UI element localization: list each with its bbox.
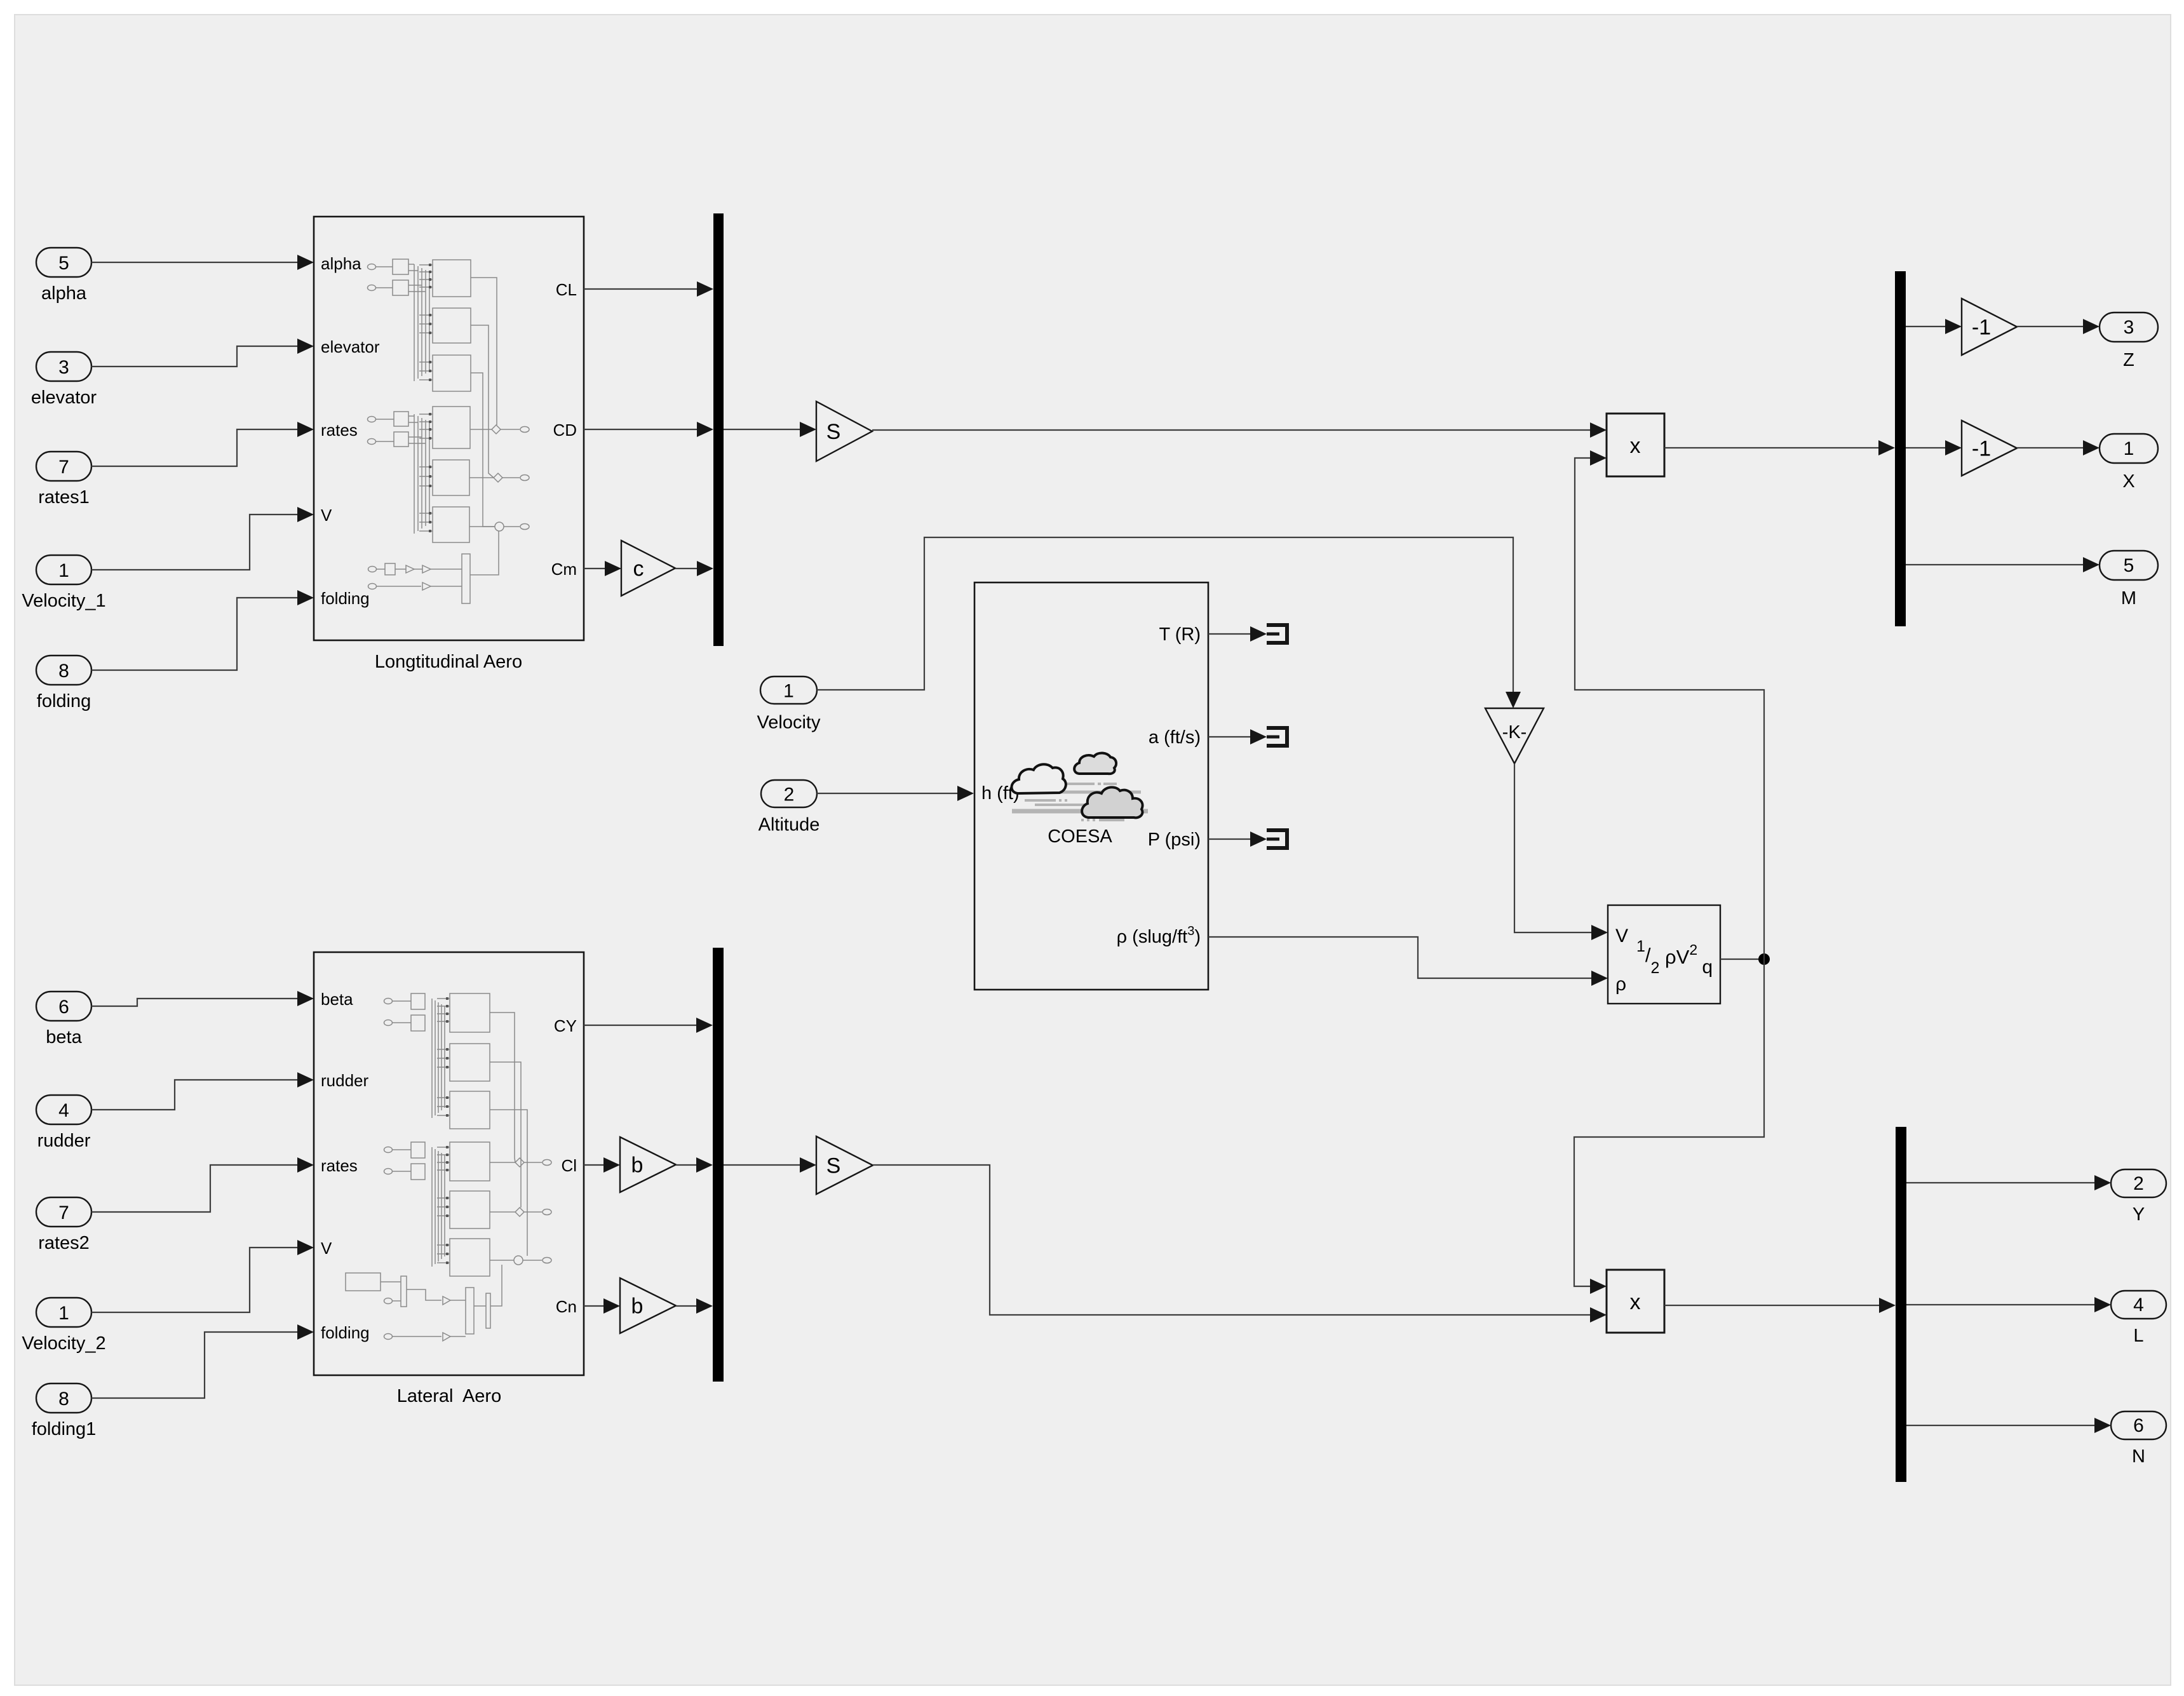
svg-text:S: S: [826, 420, 841, 444]
svg-text:elevator: elevator: [321, 337, 380, 356]
svg-text:S: S: [826, 1154, 841, 1178]
svg-text:b: b: [631, 1154, 644, 1178]
svg-text:x: x: [1630, 1290, 1641, 1314]
svg-text:elevator: elevator: [31, 387, 97, 408]
wire gain c to Mux: [675, 561, 713, 576]
svg-text:3: 3: [58, 357, 69, 378]
svg-text:V: V: [1615, 925, 1628, 946]
wire Demux to outport M: [1906, 557, 2100, 572]
svg-text:5: 5: [2124, 555, 2134, 576]
wire folding1 to Lateral Aero: [91, 1324, 314, 1398]
gain b (Cl): [620, 1137, 676, 1192]
svg-text:folding: folding: [321, 1323, 370, 1342]
svg-text:L: L: [2133, 1326, 2143, 1346]
wire Demux1 to outport Y: [1906, 1175, 2111, 1190]
gain c: [621, 541, 675, 596]
svg-text:X: X: [2122, 471, 2134, 492]
inport 3 (elevator): [31, 352, 97, 408]
svg-text:4: 4: [58, 1100, 69, 1121]
wire Velocity_2 to Lateral Aero: [91, 1240, 314, 1312]
svg-text:N: N: [2132, 1446, 2145, 1467]
wire Mux1 to gain S1: [724, 1157, 816, 1173]
wire Demux to gain -1 (Z): [1906, 319, 1962, 334]
dynamic pressure block 1/2 rho V^2: [1608, 905, 1720, 1004]
inport 5 (alpha): [36, 248, 91, 304]
svg-text:beta: beta: [46, 1027, 82, 1047]
svg-text:4: 4: [2133, 1295, 2144, 1316]
wire gain -K- to V input: [1514, 764, 1608, 940]
svg-text:3: 3: [2124, 317, 2134, 338]
svg-text:Velocity: Velocity: [757, 713, 821, 733]
Longtitudinal Aero icon preview: [368, 259, 530, 603]
svg-text:7: 7: [58, 457, 69, 478]
inport 8 (folding): [36, 656, 91, 711]
terminator P: [1267, 828, 1287, 850]
wire T (R) to terminator: [1208, 626, 1267, 642]
inport 2 (Altitude): [758, 780, 820, 835]
svg-text:Lateral Aero: Lateral Aero: [397, 1386, 501, 1406]
Lateral Aero icon preview: [346, 993, 551, 1341]
wire Cl to gain b: [584, 1157, 620, 1173]
gain -1 (Z): [1962, 299, 2017, 355]
svg-text:folding: folding: [321, 589, 370, 608]
svg-text:CY: CY: [554, 1016, 577, 1035]
wire Velocity to gain -K-: [817, 537, 1521, 708]
svg-text:rates1: rates1: [38, 487, 90, 508]
svg-text:Altitude: Altitude: [758, 815, 820, 835]
svg-text:Velocity_1: Velocity_1: [22, 591, 105, 611]
wire rates2 to Lateral Aero: [91, 1157, 314, 1212]
inport 7 (rates2): [36, 1197, 91, 1253]
svg-text:5: 5: [58, 253, 69, 274]
wire q output to junction: [1720, 959, 1764, 960]
outport 5 (M): [2100, 551, 2158, 609]
wire gain b1 to Mux1: [676, 1298, 713, 1314]
svg-text:-K-: -K-: [1502, 722, 1527, 743]
svg-text:-1: -1: [1972, 316, 1991, 340]
svg-text:b: b: [631, 1295, 644, 1319]
gain -1 (X): [1962, 421, 2017, 476]
wire gain S1 to Product1: [873, 1165, 1607, 1322]
svg-text:COESA: COESA: [1048, 826, 1112, 847]
gain S1 (span): [816, 1136, 873, 1194]
product block 1 (moment): [1607, 1270, 1664, 1333]
svg-text:a (ft/s): a (ft/s): [1149, 727, 1201, 748]
product block (force): [1607, 414, 1664, 476]
wire CL to Mux: [584, 281, 713, 297]
svg-text:P (psi): P (psi): [1148, 830, 1201, 850]
wire a (ft/s) to terminator: [1208, 729, 1267, 744]
subsystem Lateral Aero: [314, 952, 584, 1406]
svg-text:6: 6: [2133, 1415, 2144, 1436]
COESA cloud icon: [1011, 753, 1148, 820]
inport 6 (beta): [36, 992, 91, 1047]
svg-text:2: 2: [2133, 1173, 2144, 1194]
wire Mux to gain S: [724, 422, 816, 437]
Mux (longitudinal coefficients): [713, 213, 724, 646]
svg-text:CD: CD: [553, 421, 577, 440]
svg-text:beta: beta: [321, 990, 353, 1009]
inport 7 (rates1): [36, 452, 91, 508]
outport 6 (N): [2111, 1411, 2166, 1467]
svg-text:V: V: [321, 506, 332, 525]
wire Cn to gain b1: [584, 1298, 620, 1314]
wire Demux to gain -1 (X): [1906, 440, 1962, 455]
svg-text:rates2: rates2: [38, 1233, 90, 1253]
svg-text:1: 1: [58, 560, 69, 581]
svg-text:Cl: Cl: [561, 1156, 577, 1175]
wire rho to dynamic pressure block: [1208, 937, 1608, 986]
svg-text:folding: folding: [37, 691, 91, 711]
wire Demux1 to outport N: [1906, 1418, 2111, 1433]
inport 8 (folding1): [32, 1383, 97, 1439]
svg-text:1: 1: [783, 681, 794, 702]
wire Cm to gain c: [584, 561, 621, 576]
inport 4 (rudder): [36, 1095, 91, 1151]
inport 1 (Velocity): [757, 676, 821, 733]
subsystem Longtitudinal Aero: [314, 217, 584, 672]
svg-text:rudder: rudder: [321, 1071, 368, 1090]
svg-text:Z: Z: [2123, 350, 2134, 370]
svg-text:rudder: rudder: [37, 1131, 91, 1151]
svg-text:Cn: Cn: [556, 1297, 577, 1316]
svg-text:Y: Y: [2133, 1204, 2145, 1225]
gain -K- (unit conversion): [1485, 708, 1544, 764]
outport 2 (Y): [2111, 1169, 2166, 1225]
COESA atmosphere model block: [974, 582, 1208, 990]
outport 1 (X): [2100, 434, 2158, 492]
svg-text:-1: -1: [1972, 437, 1991, 461]
svg-text:Longtitudinal Aero: Longtitudinal Aero: [375, 652, 522, 672]
svg-text:1: 1: [2124, 438, 2134, 459]
wire Product1 to Demux1: [1664, 1298, 1896, 1313]
outport 4 (L): [2111, 1291, 2166, 1346]
wire gain S to Product: [872, 422, 1607, 438]
inport 1 (Velocity_2): [22, 1298, 105, 1354]
Mux1 (lateral coefficients): [713, 948, 724, 1382]
Demux1 (moments): [1896, 1127, 1906, 1482]
wire CD to Mux: [584, 422, 713, 437]
gain b1 (Cn): [620, 1278, 676, 1333]
wire rates1 to Longtitudinal Aero: [91, 422, 314, 466]
wire Demux1 to outport L: [1906, 1297, 2111, 1312]
terminator T: [1267, 623, 1287, 645]
wire CY to Mux1: [584, 1018, 713, 1033]
svg-text:c: c: [633, 557, 644, 581]
wire alpha to Longtitudinal Aero: [91, 255, 314, 270]
svg-text:ρ: ρ: [1615, 974, 1626, 995]
wire Velocity_1 to Longtitudinal Aero: [91, 507, 314, 570]
svg-text:x: x: [1630, 434, 1641, 458]
wire Altitude to COESA: [817, 786, 974, 801]
outport 3 (Z): [2100, 313, 2158, 370]
svg-text:Velocity_2: Velocity_2: [22, 1333, 105, 1354]
svg-text:folding1: folding1: [32, 1419, 97, 1439]
wire elevator to Longtitudinal Aero: [91, 339, 314, 367]
wire Product to Demux (force): [1664, 440, 1895, 455]
inport 1 (Velocity_1): [22, 555, 105, 611]
wire rudder to Lateral Aero: [91, 1072, 314, 1110]
svg-text:CL: CL: [556, 280, 577, 299]
svg-text:1: 1: [58, 1303, 69, 1324]
svg-text:q: q: [1702, 957, 1713, 978]
svg-text:2: 2: [784, 784, 795, 805]
junction q: [1758, 953, 1770, 965]
wire folding to Longtitudinal Aero: [91, 590, 314, 670]
svg-text:6: 6: [58, 997, 69, 1018]
wire gain -1 to outport X: [2017, 440, 2100, 455]
svg-text:V: V: [321, 1239, 332, 1258]
svg-text:Cm: Cm: [551, 560, 577, 579]
wire P (psi) to terminator: [1208, 831, 1267, 847]
svg-text:alpha: alpha: [321, 254, 361, 273]
svg-text:rates: rates: [321, 1156, 358, 1175]
svg-text:8: 8: [58, 661, 69, 682]
gain S (cbar): [816, 401, 872, 461]
wire q to Product1 (moment): [1574, 959, 1764, 1294]
svg-text:M: M: [2121, 588, 2136, 609]
wire gain -1 to outport Z: [2017, 319, 2100, 334]
svg-text:7: 7: [58, 1202, 69, 1223]
svg-text:T (R): T (R): [1159, 624, 1201, 645]
svg-text:rates: rates: [321, 421, 358, 440]
wire q to Product (force): [1575, 450, 1764, 959]
Demux (forces): [1895, 271, 1906, 626]
svg-text:alpha: alpha: [41, 283, 87, 304]
terminator a: [1267, 726, 1287, 748]
wire gain b to Mux1: [676, 1157, 713, 1173]
wire beta to Lateral Aero: [91, 991, 314, 1006]
svg-text:8: 8: [58, 1389, 69, 1410]
